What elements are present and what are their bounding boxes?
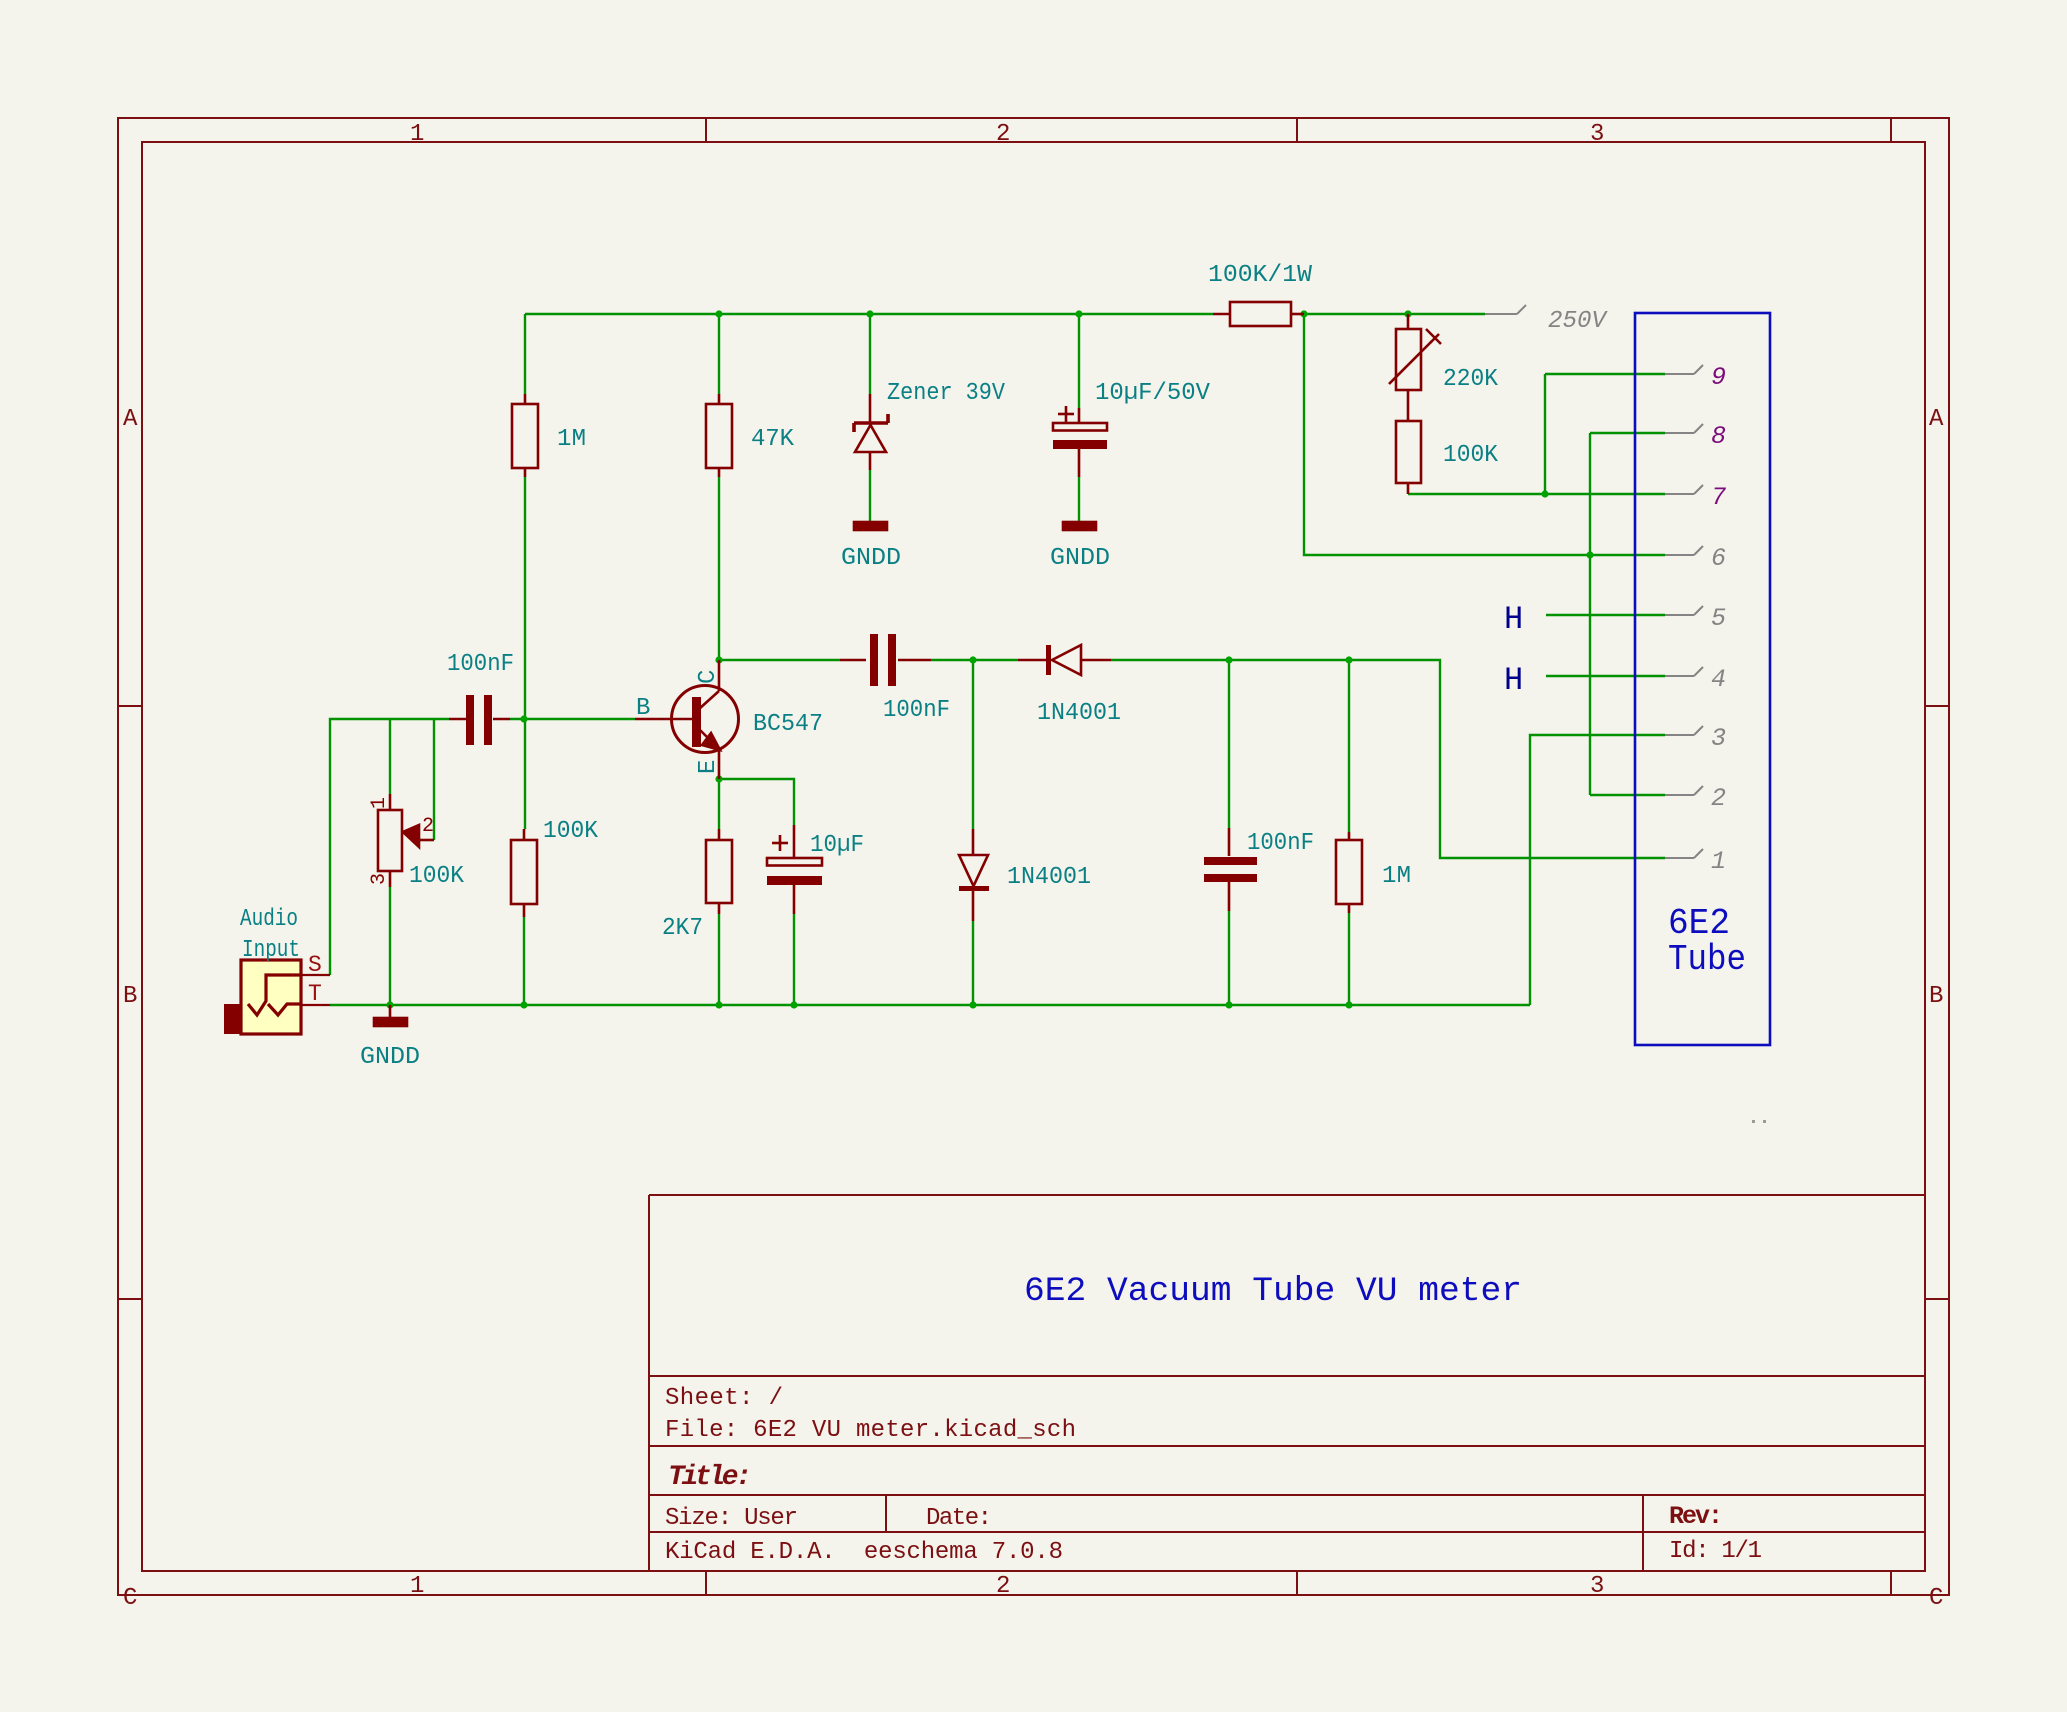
wire zener anode to GNDD <box>869 470 871 521</box>
wire top rail right of 100K/1W <box>1304 313 1485 315</box>
svg-text:3: 3 <box>368 873 391 885</box>
audio input jack connector <box>224 960 330 1034</box>
wire diode D2 bottom to rail <box>972 921 974 1005</box>
potentiometer 220K <box>1389 314 1441 421</box>
junction rail 100K bias <box>520 1001 527 1008</box>
potentiometer 100K (input level) <box>378 794 434 887</box>
resistor 1M (output) <box>1336 832 1362 913</box>
capacitor 100nF (collector coupling) <box>840 634 931 686</box>
svg-text:1M: 1M <box>557 426 586 453</box>
junction emitter node <box>715 775 722 782</box>
svg-text:100nF: 100nF <box>1247 830 1314 857</box>
wire heater H pin4 stub <box>1546 675 1665 677</box>
wire 100nF C5 bottom to rail <box>1228 911 1230 1005</box>
svg-text:3: 3 <box>1590 1573 1604 1600</box>
wire 2K7 bottom to rail <box>718 914 720 1005</box>
wire 10uF/50V top branch <box>1078 314 1080 408</box>
svg-text:2: 2 <box>996 1573 1010 1600</box>
6E2 tube outline box <box>1635 313 1770 1045</box>
svg-text:100K: 100K <box>409 863 465 890</box>
svg-text:250V: 250V <box>1548 308 1609 335</box>
wire ground rail <box>330 1004 1530 1006</box>
wire pin3 to ground rail <box>1530 735 1665 1005</box>
svg-text:H: H <box>1504 662 1523 699</box>
diode 1N4001 (shunt, pointing down) <box>959 829 989 921</box>
wire pot RV1 pin1 drop <box>389 719 391 794</box>
svg-text:1M: 1M <box>1382 863 1411 890</box>
svg-text:3: 3 <box>1711 724 1726 753</box>
wire node after 100K/1W down to pin6 <box>1304 314 1665 555</box>
wire 1M R6 top <box>1348 660 1350 832</box>
wire collector to 100nF <box>719 659 840 661</box>
wire 10uF/50V bottom to GNDD <box>1078 477 1080 521</box>
svg-text:6E2: 6E2 <box>1668 903 1730 944</box>
svg-text:T: T <box>308 981 322 1007</box>
junction diode row D2 <box>969 656 976 663</box>
junction diode row R6 <box>1345 656 1352 663</box>
ground GNDD (10uF/50V) <box>1063 521 1096 530</box>
wire pin9 horizontal <box>1545 373 1665 375</box>
resistor 2K7 <box>706 829 732 914</box>
svg-text:KiCad E.D.A. eeschema 7.0.8: KiCad E.D.A. eeschema 7.0.8 <box>665 1539 1063 1566</box>
svg-text:10µF: 10µF <box>810 832 864 859</box>
svg-text:220K: 220K <box>1443 366 1499 393</box>
pin 2 <box>1665 786 1703 795</box>
svg-text:Date:: Date: <box>926 1505 992 1532</box>
capacitor 10uF/50V polarized <box>1053 406 1107 477</box>
svg-text:2: 2 <box>1711 784 1726 813</box>
power pin 250V <box>1485 305 1526 314</box>
wire pot RV1 bottom to rail <box>389 887 391 1005</box>
wire 47K top branch <box>718 314 720 394</box>
svg-text:B: B <box>123 983 137 1010</box>
svg-text:C: C <box>1929 1585 1943 1612</box>
wire 10uF bypass bottom to rail <box>793 914 795 1005</box>
svg-text:E: E <box>695 760 722 774</box>
ground GNDD (input jack) <box>374 1005 407 1026</box>
svg-text:4: 4 <box>1711 665 1726 694</box>
svg-text:A: A <box>1929 406 1944 433</box>
zener diode 39V <box>854 394 888 470</box>
wire 1M bottom to base node <box>524 477 526 829</box>
junction pin7 node <box>1541 490 1548 497</box>
wire 1M R6 bottom to rail <box>1348 913 1350 1005</box>
svg-text:C: C <box>695 670 722 684</box>
wire emitter to 2K7 <box>718 779 720 829</box>
wire zener top branch <box>869 314 871 394</box>
svg-text:Rev:: Rev: <box>1669 1502 1723 1531</box>
svg-text:1: 1 <box>410 121 424 148</box>
svg-text:B: B <box>1929 983 1943 1010</box>
junction rail 2K7 <box>715 1001 722 1008</box>
wire pin8 to pin2 vertical <box>1589 433 1591 795</box>
wire pin2 horizontal <box>1590 794 1665 796</box>
stray dots <box>1752 1120 1766 1123</box>
svg-text:S: S <box>308 952 322 978</box>
svg-text:100nF: 100nF <box>447 651 514 678</box>
svg-text:3: 3 <box>1590 121 1604 148</box>
wire pot bottom to pin7 net <box>1408 493 1665 495</box>
svg-text:Size: User: Size: User <box>665 1505 798 1532</box>
svg-text:File: 6E2 VU meter.kicad_sch: File: 6E2 VU meter.kicad_sch <box>665 1417 1076 1444</box>
capacitor 100nF (input) <box>449 695 510 745</box>
wire 100K bias bottom to ground rail <box>523 917 525 1005</box>
wire heater H pin5 stub <box>1546 614 1665 616</box>
svg-text:Input: Input <box>242 937 300 964</box>
svg-text:47K: 47K <box>751 426 795 453</box>
svg-text:A: A <box>123 406 138 433</box>
capacitor 100nF (output filter) <box>1204 828 1257 911</box>
svg-text:BC547: BC547 <box>753 711 823 738</box>
svg-text:100K/1W: 100K/1W <box>1208 262 1313 289</box>
junction pin6 node <box>1586 551 1593 558</box>
resistor 100K (bias) <box>511 829 537 917</box>
svg-text:1N4001: 1N4001 <box>1037 700 1121 727</box>
junction rail R6 <box>1345 1001 1352 1008</box>
junction base node <box>520 715 527 722</box>
pin 9 <box>1665 365 1703 374</box>
svg-text:100nF: 100nF <box>883 697 950 724</box>
junction zener top <box>866 310 873 317</box>
wire 100nF C5 top <box>1228 660 1230 828</box>
wire 1M R1 top branch <box>524 314 526 394</box>
svg-text:GNDD: GNDD <box>841 545 901 572</box>
svg-text:9: 9 <box>1711 363 1726 392</box>
svg-text:Title:: Title: <box>668 1462 752 1493</box>
pin 6 <box>1665 546 1703 555</box>
pin 4 <box>1665 667 1703 676</box>
junction after 100K/1W <box>1300 310 1307 317</box>
diode 1N4001 (series, pointing left) <box>1018 645 1111 675</box>
svg-text:Sheet: /: Sheet: / <box>665 1385 783 1412</box>
svg-text:2: 2 <box>996 121 1010 148</box>
pin 3 <box>1665 726 1703 735</box>
svg-text:C: C <box>123 1585 137 1612</box>
junction rail GNDD tap <box>386 1001 393 1008</box>
wire input loop S to cap <box>330 719 449 975</box>
wire diode D2 top <box>972 660 974 829</box>
svg-text:Id: 1/1: Id: 1/1 <box>1669 1538 1762 1565</box>
svg-text:100K: 100K <box>1443 442 1499 469</box>
junction 10uF top <box>1075 310 1082 317</box>
wire pin8 horizontal <box>1590 432 1665 434</box>
svg-text:2K7: 2K7 <box>662 915 703 942</box>
svg-text:H: H <box>1504 601 1523 638</box>
svg-text:1: 1 <box>368 797 391 809</box>
junction rail 10uF bypass <box>790 1001 797 1008</box>
svg-text:1: 1 <box>410 1573 424 1600</box>
svg-text:5: 5 <box>1711 604 1726 633</box>
transistor BC547 <box>635 660 739 779</box>
svg-text:1N4001: 1N4001 <box>1007 864 1091 891</box>
svg-text:2: 2 <box>422 815 434 838</box>
wire collector row to pin1 <box>1111 660 1665 858</box>
junction 47K top <box>715 310 722 317</box>
pin 5 <box>1665 606 1703 615</box>
wire 100nF to diode <box>931 659 1018 661</box>
resistor 100K/1W horizontal <box>1213 302 1304 326</box>
junction rail C5 <box>1225 1001 1232 1008</box>
wire emitter to 10uF bypass <box>719 779 794 825</box>
wire 47K bottom to collector node <box>718 477 720 660</box>
svg-text:8: 8 <box>1711 422 1726 451</box>
junction diode row C5 <box>1225 656 1232 663</box>
capacitor 10uF (emitter bypass) polarized <box>767 825 822 914</box>
svg-text:1: 1 <box>1711 847 1726 876</box>
wire cap to base <box>510 718 635 720</box>
svg-text:Zener 39V: Zener 39V <box>887 380 1006 407</box>
resistor 1M (left) <box>512 394 538 477</box>
junction collector node <box>715 656 722 663</box>
pin 7 <box>1665 485 1703 494</box>
junction rail D2 <box>969 1001 976 1008</box>
svg-text:6: 6 <box>1711 544 1726 573</box>
svg-text:Audio: Audio <box>240 906 298 933</box>
wire top power rail 250V <box>525 313 1213 315</box>
svg-text:7: 7 <box>1711 483 1726 512</box>
wire pot RV1 wiper riser <box>433 719 435 840</box>
resistor 47K <box>706 394 732 477</box>
svg-text:Tube: Tube <box>1668 939 1746 980</box>
pin 1 <box>1665 849 1703 858</box>
resistor 100K (pot series) <box>1396 421 1421 494</box>
pin 8 <box>1665 424 1703 433</box>
svg-text:GNDD: GNDD <box>1050 545 1110 572</box>
wire pin9 net vertical <box>1544 374 1546 494</box>
ground GNDD (zener) <box>854 521 887 530</box>
svg-text:6E2 Vacuum Tube VU meter: 6E2 Vacuum Tube VU meter <box>1024 1273 1522 1311</box>
svg-text:100K: 100K <box>543 818 599 845</box>
svg-text:GNDD: GNDD <box>360 1044 420 1071</box>
junction pot 220K top <box>1404 310 1411 317</box>
svg-text:B: B <box>636 695 650 722</box>
svg-text:10µF/50V: 10µF/50V <box>1095 380 1211 407</box>
